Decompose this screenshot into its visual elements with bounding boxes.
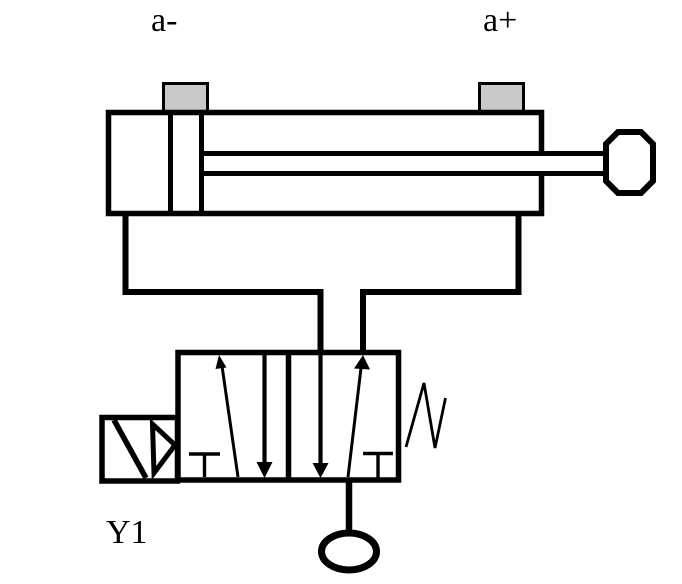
solenoid Y1 box — [102, 418, 178, 482]
piston rod — [204, 154, 608, 174]
right chamber blocked port T — [363, 454, 393, 479]
svg-text:Y1: Y1 — [106, 514, 148, 551]
cylinder body — [109, 113, 542, 214]
rod knob (octagon handle) — [606, 132, 653, 193]
return spring — [406, 383, 446, 448]
valve chamber divider — [286, 353, 292, 481]
left chamber flow arrow (down) — [257, 355, 273, 478]
left chamber flow arrow (up-left) — [216, 355, 239, 477]
solenoid diagonal — [114, 420, 146, 478]
svg-text:a-: a- — [151, 2, 177, 39]
valve body (4/2 directional valve) — [178, 353, 399, 481]
right chamber flow arrow (down) — [313, 355, 329, 478]
exhaust line — [346, 480, 353, 531]
svg-text:a+: a+ — [483, 2, 517, 39]
pipe from cylinder right port to valve — [363, 215, 519, 355]
cam a- (left gray block) — [164, 84, 208, 112]
piston (two vertical lines) — [171, 110, 202, 216]
pipe from cylinder left port to valve — [126, 215, 321, 355]
right chamber flow arrow (up) — [348, 355, 370, 477]
exhaust circle — [322, 533, 377, 570]
left chamber blocked port T — [189, 454, 220, 477]
solenoid triangle — [153, 424, 176, 473]
cam a+ (right gray block) — [480, 84, 524, 112]
